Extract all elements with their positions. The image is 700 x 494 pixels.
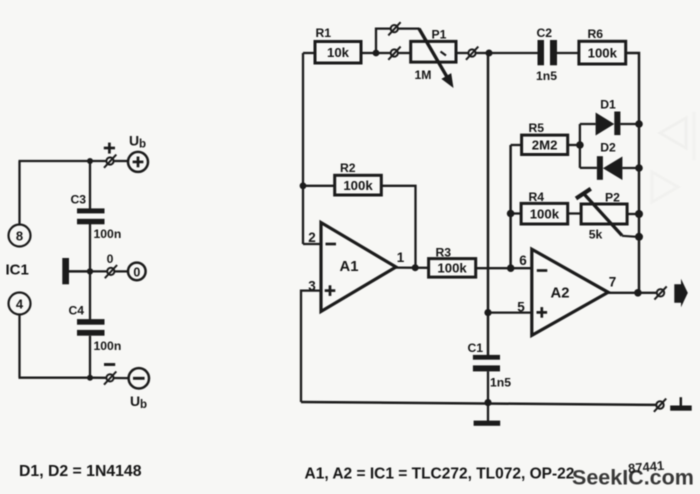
svg-text:1M: 1M xyxy=(415,68,432,82)
wire diode branch vertical xyxy=(579,124,581,168)
wire C3 to mid junction xyxy=(89,224,91,271)
svg-text:4: 4 xyxy=(16,296,24,311)
resistor R2 xyxy=(303,161,381,195)
wire bypass to wiper xyxy=(398,27,419,29)
node D2 right xyxy=(635,164,643,172)
svg-text:R5: R5 xyxy=(529,121,545,135)
wire pin5 xyxy=(488,311,532,313)
wire left rail of osc xyxy=(302,53,304,244)
svg-text:b: b xyxy=(140,399,147,411)
svg-text:D1: D1 xyxy=(600,98,616,112)
wire pin2 stub xyxy=(303,243,322,245)
svg-text:100k: 100k xyxy=(343,178,373,193)
wire R5R4 rail xyxy=(509,145,512,268)
svg-text:8: 8 xyxy=(16,228,23,243)
node C2 junction xyxy=(486,50,493,57)
svg-text:D1, D2 = 1N4148: D1, D2 = 1N4148 xyxy=(19,463,142,480)
label IC1 xyxy=(6,262,29,279)
wire connector to P1 xyxy=(398,52,411,54)
node top junction xyxy=(87,158,93,164)
svg-text:10k: 10k xyxy=(327,45,350,60)
wire R6 to right rail xyxy=(626,53,639,293)
pin 1 label xyxy=(397,250,405,265)
svg-text:C4: C4 xyxy=(69,304,85,318)
preset P2 xyxy=(576,189,637,242)
resistor R1 xyxy=(303,26,361,63)
capacitor C3 xyxy=(71,193,122,242)
wire connector to node xyxy=(476,52,489,54)
resistor R3 xyxy=(429,245,476,277)
connector bypass xyxy=(388,22,400,35)
svg-text:R3: R3 xyxy=(436,245,452,259)
svg-text:P2: P2 xyxy=(605,191,620,205)
wire C1 to bottom rail xyxy=(487,371,489,402)
svg-text:5: 5 xyxy=(517,300,525,315)
pin circle 4 xyxy=(9,293,31,315)
svg-text:100n: 100n xyxy=(94,227,122,241)
svg-text:1n5: 1n5 xyxy=(490,376,511,390)
wire C2 node down to C1 xyxy=(487,53,490,355)
svg-text:100k: 100k xyxy=(588,45,618,60)
connector output xyxy=(654,286,666,299)
resistor R6 xyxy=(579,27,626,64)
node R2 left junction xyxy=(300,182,307,189)
wire C4 to bottom junction xyxy=(89,336,91,378)
terminal +Ub xyxy=(128,152,148,172)
svg-text:100n: 100n xyxy=(94,339,122,353)
ground bottom right xyxy=(670,397,692,411)
pin 6 label xyxy=(519,253,527,268)
capacitor C2 xyxy=(536,26,557,83)
pin 2 label xyxy=(308,230,316,245)
svg-text:1: 1 xyxy=(397,250,405,265)
wire P2 right xyxy=(627,213,639,215)
wire down to C3 xyxy=(89,161,91,209)
svg-text:A2: A2 xyxy=(551,286,570,302)
svg-text:C3: C3 xyxy=(71,193,87,207)
wire mid to connector xyxy=(90,270,107,272)
svg-text:D2: D2 xyxy=(600,141,616,155)
node P2 wiper xyxy=(635,233,643,241)
wire bottom rail xyxy=(301,402,656,405)
wire A1 out to R3 xyxy=(396,266,429,268)
wire node to C2 xyxy=(489,52,538,54)
svg-text:A1: A1 xyxy=(340,259,359,275)
node pin5 junction xyxy=(484,309,491,316)
resistor R5 xyxy=(511,121,568,155)
wire junction to connector xyxy=(90,160,106,162)
wire R5 to diode node xyxy=(568,144,580,146)
svg-text:1n5: 1n5 xyxy=(536,69,557,83)
figure number 87441 xyxy=(627,458,664,476)
wire C2 to R6 xyxy=(557,52,579,54)
output arrow xyxy=(674,279,688,307)
svg-text:U: U xyxy=(129,133,139,149)
node D1 right xyxy=(635,120,643,128)
wire R2 to output node xyxy=(381,186,415,268)
svg-text:A1, A2 = IC1 = TLC272, TL072,: A1, A2 = IC1 = TLC272, TL072, OP-22 xyxy=(305,466,575,483)
wire connector to 0 terminal xyxy=(115,270,128,272)
wire R1 to junction xyxy=(361,52,376,54)
node R4 left junction xyxy=(507,210,515,218)
label Ub top xyxy=(129,133,146,151)
wire top supply xyxy=(19,160,91,162)
wire mid junction to C4 xyxy=(89,271,91,319)
potentiometer P1 xyxy=(411,28,456,89)
svg-text:2: 2 xyxy=(308,230,316,245)
node mid junction xyxy=(87,268,93,274)
svg-text:b: b xyxy=(139,139,146,151)
label 0 small xyxy=(107,252,114,266)
wire P1 to connector xyxy=(456,52,468,54)
pin 5 label xyxy=(517,300,525,315)
faint scan ghosting xyxy=(652,112,694,202)
common bar symbol xyxy=(62,258,90,284)
wire pin3 down to bottom rail xyxy=(301,291,322,402)
node output junction xyxy=(634,289,642,297)
svg-text:7: 7 xyxy=(609,275,617,290)
connector -Ub xyxy=(104,372,116,385)
label Ub bottom xyxy=(130,393,147,411)
connector before P1 xyxy=(388,47,400,60)
pin 7 label xyxy=(609,275,617,290)
connector after P1 xyxy=(466,47,478,60)
watermark SeekIC xyxy=(572,466,694,490)
wire connector to -Ub terminal xyxy=(114,377,129,379)
caption D1 D2 xyxy=(19,463,142,480)
diode D1 xyxy=(580,98,639,136)
svg-text:IC1: IC1 xyxy=(6,262,29,279)
node pin6 junction xyxy=(507,264,515,272)
svg-text:R2: R2 xyxy=(340,161,356,175)
node after R1 xyxy=(373,50,380,57)
label + polarity top xyxy=(104,143,115,154)
svg-text:5k: 5k xyxy=(589,228,603,242)
svg-text:100k: 100k xyxy=(437,261,467,276)
wire junction to connector bottom xyxy=(90,377,106,379)
connector bottom right xyxy=(654,399,666,412)
wire R3 to pin6 xyxy=(476,267,532,269)
svg-text:6: 6 xyxy=(519,253,527,268)
node diode junction xyxy=(576,141,584,149)
pin 3 label xyxy=(308,279,316,294)
caption A1 A2 xyxy=(305,466,575,483)
wire A2 output xyxy=(608,292,657,294)
svg-text:C1: C1 xyxy=(468,341,484,355)
wire left rail lower xyxy=(18,315,20,378)
svg-text:R4: R4 xyxy=(529,190,545,204)
wire connector to +Ub terminal xyxy=(114,160,128,162)
label - polarity bottom xyxy=(104,363,115,366)
wire R4 to P2 xyxy=(568,212,581,214)
svg-text:2M2: 2M2 xyxy=(532,138,558,153)
connector 0 xyxy=(105,265,117,278)
resistor R4 xyxy=(511,190,568,224)
wire bottom supply xyxy=(19,377,91,379)
pin circle 8 xyxy=(9,225,31,247)
terminal 0 xyxy=(128,263,146,281)
svg-text:R6: R6 xyxy=(588,27,604,41)
svg-text:C2: C2 xyxy=(537,26,553,40)
op-amp A1 xyxy=(321,223,396,312)
svg-text:0: 0 xyxy=(133,265,140,279)
connector +Ub xyxy=(104,155,116,168)
svg-text:R1: R1 xyxy=(316,26,332,40)
node bottom junction xyxy=(87,375,93,381)
capacitor C4 xyxy=(69,304,122,354)
svg-text:U: U xyxy=(130,393,140,409)
ground C1 xyxy=(474,403,501,426)
svg-text:100k: 100k xyxy=(530,207,560,222)
diode D2 xyxy=(580,141,639,181)
terminal -Ub xyxy=(129,368,149,388)
op-amp A2 xyxy=(532,249,608,335)
wire lower to connector xyxy=(376,52,391,54)
node A1 output xyxy=(412,264,419,271)
wire left rail upper xyxy=(18,161,20,224)
wire bypass up xyxy=(376,29,391,53)
node P2 right xyxy=(635,210,643,218)
svg-text:87441: 87441 xyxy=(627,458,664,476)
svg-text:P1: P1 xyxy=(432,28,447,42)
svg-text:0: 0 xyxy=(107,252,114,266)
node bottom C1 junction xyxy=(484,399,491,406)
capacitor C1 xyxy=(468,341,512,390)
